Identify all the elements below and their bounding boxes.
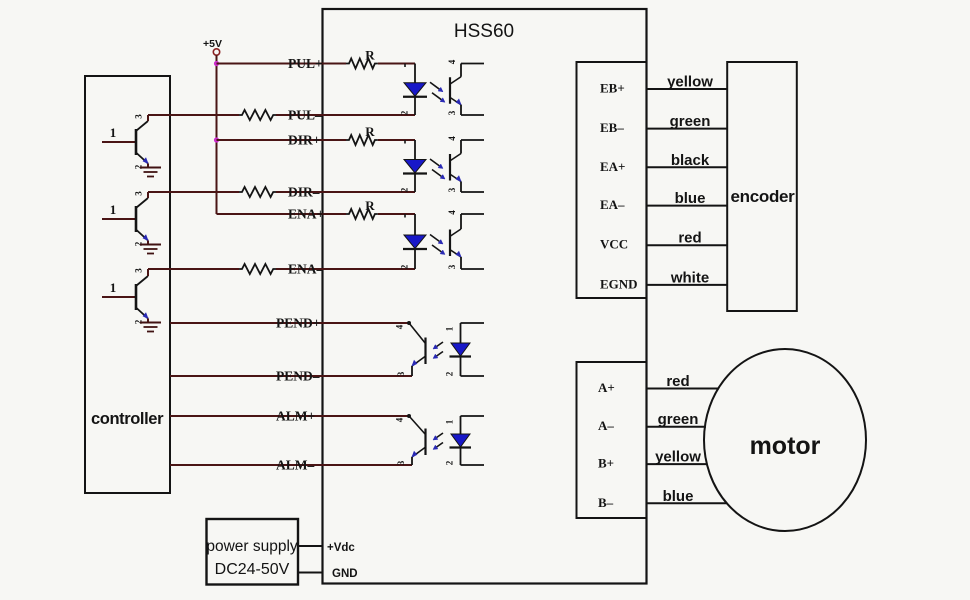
- svg-text:2: 2: [400, 264, 410, 269]
- svg-text:PUL–: PUL–: [288, 108, 322, 123]
- wire ALM+: [170, 415, 409, 417]
- transistor Q2: [102, 192, 149, 245]
- ground for Q2: [140, 245, 161, 254]
- svg-text:2: 2: [445, 460, 455, 465]
- svg-text:blue: blue: [675, 190, 706, 207]
- svg-text:A–: A–: [598, 418, 614, 433]
- svg-text:R: R: [365, 198, 375, 213]
- transistor Q1: [102, 115, 149, 168]
- svg-text:3: 3: [447, 110, 457, 115]
- wire A- to motor (green): [647, 426, 707, 428]
- optocoupler U5 (ALM) phototransistor: [407, 414, 426, 465]
- wire DIR- from transistor collector: [148, 191, 239, 193]
- svg-text:ALM+: ALM+: [276, 409, 315, 424]
- svg-text:1: 1: [110, 202, 117, 217]
- svg-text:GND: GND: [332, 568, 358, 580]
- terminal block (encoder signals): [577, 62, 647, 298]
- resistor R on DIR+: [346, 124, 378, 145]
- light arrows U1 (PUL): [430, 82, 445, 102]
- wire B+ to motor (yellow): [647, 463, 708, 465]
- svg-text:power supply: power supply: [206, 538, 298, 555]
- wire DIR+ from +5V rail: [217, 139, 347, 141]
- svg-text:1: 1: [110, 125, 117, 140]
- svg-text:B+: B+: [598, 456, 614, 471]
- svg-text:3: 3: [134, 191, 144, 196]
- svg-text:2: 2: [400, 110, 410, 115]
- svg-text:PEND–: PEND–: [276, 369, 320, 384]
- svg-text:HSS60: HSS60: [454, 21, 514, 42]
- series resistor on DIR-: [239, 187, 276, 197]
- svg-text:EB+: EB+: [600, 81, 625, 96]
- svg-text:3: 3: [396, 371, 406, 376]
- svg-text:3: 3: [134, 114, 144, 119]
- wire PEND-: [170, 375, 412, 377]
- junction dot on +5V rail at PUL+: [214, 61, 219, 66]
- svg-text:ALM–: ALM–: [276, 458, 314, 473]
- wire ENA+ resistor to optocoupler: [378, 213, 415, 215]
- optocoupler U3 (ENA) LED: [403, 214, 427, 269]
- wire DIR- resistor to optocoupler: [276, 191, 415, 193]
- svg-text:3: 3: [396, 460, 406, 465]
- series resistor on ENA-: [239, 264, 276, 274]
- svg-text:yellow: yellow: [655, 449, 701, 466]
- controller box: [85, 76, 170, 493]
- optocoupler U2 (DIR) LED: [403, 140, 427, 192]
- wire EGND to encoder (white): [647, 284, 728, 286]
- svg-text:EGND: EGND: [600, 276, 638, 291]
- wire PEND+: [170, 322, 409, 324]
- svg-text:EB–: EB–: [600, 120, 624, 135]
- wire PUL- resistor to optocoupler: [276, 114, 415, 116]
- HSS60 driver box: [323, 9, 647, 584]
- wire B- to motor (blue): [647, 502, 727, 504]
- wire EB- to encoder (green): [647, 128, 728, 130]
- svg-text:EA+: EA+: [600, 159, 625, 174]
- svg-text:R: R: [365, 48, 375, 63]
- wire EA- to encoder (blue): [647, 205, 728, 207]
- svg-text:DIR+: DIR+: [288, 133, 320, 148]
- svg-text:3: 3: [134, 268, 144, 273]
- svg-text:motor: motor: [750, 432, 821, 460]
- wire EA+ to encoder (black): [647, 166, 728, 168]
- svg-text:3: 3: [447, 187, 457, 192]
- svg-text:green: green: [670, 113, 711, 130]
- optocoupler U4 (PEND) LED: [450, 323, 485, 376]
- encoder box: [727, 62, 797, 311]
- svg-text:4: 4: [395, 417, 405, 422]
- svg-text:blue: blue: [663, 488, 694, 505]
- svg-text:DIR–: DIR–: [288, 185, 320, 200]
- ground for Q3: [140, 323, 161, 332]
- ground for Q1: [140, 168, 161, 177]
- light arrows U2 (DIR): [430, 159, 445, 179]
- wire GND: [298, 572, 323, 574]
- svg-text:1: 1: [110, 280, 117, 295]
- svg-text:+5V: +5V: [203, 38, 222, 50]
- wire PUL- from transistor collector: [148, 114, 239, 116]
- svg-text:4: 4: [447, 210, 457, 215]
- svg-text:DC24-50V: DC24-50V: [215, 561, 290, 578]
- wire PUL+ from +5V rail: [217, 63, 347, 65]
- svg-text:green: green: [658, 411, 699, 428]
- svg-text:4: 4: [447, 136, 457, 141]
- wire DIR+ resistor to optocoupler: [378, 139, 415, 141]
- svg-text:EA–: EA–: [600, 197, 625, 212]
- svg-text:yellow: yellow: [667, 74, 713, 91]
- svg-text:4: 4: [395, 324, 405, 329]
- wire +Vdc: [298, 545, 323, 547]
- light arrows U3 (ENA): [430, 235, 445, 255]
- svg-text:black: black: [671, 152, 710, 169]
- motor (circle): [704, 349, 866, 531]
- svg-text:1: 1: [445, 326, 455, 331]
- svg-text:PUL+: PUL+: [288, 56, 323, 71]
- optocoupler U5 (ALM) LED: [450, 416, 485, 465]
- optocoupler U2 (DIR) phototransistor: [450, 140, 484, 192]
- wire ENA+ from +5V rail: [217, 213, 347, 215]
- svg-text:4: 4: [447, 59, 457, 64]
- svg-text:VCC: VCC: [600, 237, 628, 252]
- svg-text:controller: controller: [91, 410, 164, 428]
- wire PUL+ resistor to optocoupler: [378, 63, 415, 65]
- wire ALM-: [170, 464, 412, 466]
- svg-text:R: R: [365, 124, 375, 139]
- optocoupler U1 (PUL) phototransistor: [450, 64, 484, 116]
- svg-text:1: 1: [445, 419, 455, 424]
- svg-text:+Vdc: +Vdc: [327, 542, 355, 554]
- wire VCC to encoder (red): [647, 244, 728, 246]
- wire A+ to motor (red): [647, 388, 720, 390]
- svg-text:2: 2: [400, 187, 410, 192]
- resistor R on ENA+: [346, 198, 378, 219]
- svg-text:ENA–: ENA–: [288, 262, 324, 277]
- optocoupler U4 (PEND) phototransistor: [407, 321, 426, 376]
- svg-text:PEND+: PEND+: [276, 316, 320, 331]
- svg-text:3: 3: [447, 264, 457, 269]
- wire +5V rail: [216, 55, 218, 214]
- power supply box: [206, 519, 298, 585]
- terminal block (motor phases): [577, 362, 647, 518]
- svg-text:encoder: encoder: [730, 187, 795, 206]
- svg-text:B–: B–: [598, 495, 614, 510]
- junction dot on +5V rail at DIR+: [214, 137, 219, 142]
- svg-text:red: red: [678, 230, 701, 247]
- wire ENA- from transistor collector: [148, 268, 239, 270]
- wire EB+ to encoder (yellow): [647, 88, 728, 90]
- series resistor on PUL-: [239, 110, 276, 120]
- +5V supply terminal: [203, 38, 222, 55]
- transistor Q3: [102, 269, 149, 323]
- light arrows U4 (PEND): [433, 342, 443, 359]
- optocoupler U3 (ENA) phototransistor: [450, 214, 484, 269]
- svg-text:A+: A+: [598, 380, 615, 395]
- wire ENA- resistor to optocoupler: [276, 268, 415, 270]
- svg-text:ENA+: ENA+: [288, 207, 324, 222]
- resistor R on PUL+: [346, 48, 378, 69]
- light arrows U5 (ALM): [433, 433, 443, 450]
- svg-text:red: red: [666, 373, 689, 390]
- svg-text:2: 2: [445, 371, 455, 376]
- optocoupler U1 (PUL) LED: [403, 64, 427, 116]
- svg-text:white: white: [670, 269, 709, 286]
